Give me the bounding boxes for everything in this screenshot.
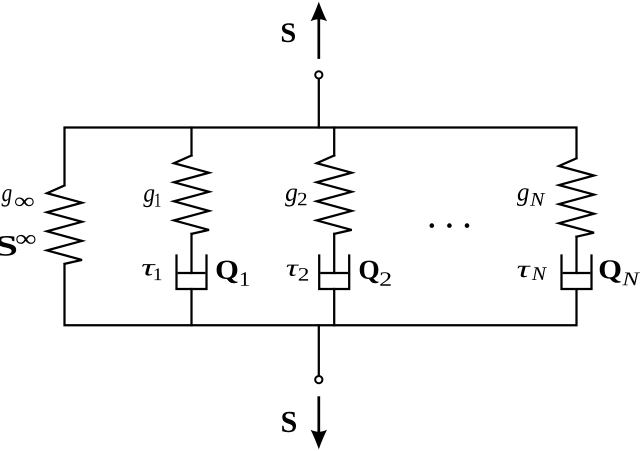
dashpot Q2 cup xyxy=(319,256,349,290)
label tau_1 tau xyxy=(142,264,156,275)
spring g_N xyxy=(559,158,594,236)
dots ellipsis xyxy=(430,223,470,228)
label tau_2 sub xyxy=(299,268,308,281)
wire branch2 lower lead xyxy=(190,289,192,325)
wire branch2 upper lead xyxy=(190,128,192,156)
label Q_1 Q xyxy=(217,261,238,284)
label g_2 sub xyxy=(298,193,306,206)
dashpot Q1 piston plate xyxy=(179,272,204,274)
label g_N sub xyxy=(530,193,545,206)
label Q_1 sub xyxy=(241,272,249,285)
label S top xyxy=(282,23,295,42)
dashpot QN piston plate xyxy=(564,272,589,274)
spring g_2 xyxy=(317,156,352,234)
label S^infinity inf xyxy=(16,235,35,244)
wire bottom rail with branch1/branch4 lower leads xyxy=(65,264,577,325)
node bottom terminal circle xyxy=(315,376,322,383)
label Q_2 sub xyxy=(380,272,390,286)
label Q_N sub xyxy=(622,273,640,286)
label g_N g xyxy=(517,188,529,206)
dashpot QN cup xyxy=(562,256,592,290)
label tau_N tau xyxy=(518,266,531,277)
label tau_2 tau xyxy=(287,265,299,276)
node top terminal circle xyxy=(315,71,322,78)
wire top rail with branch1/branch4 upper leads xyxy=(65,128,577,186)
dashpot Q1 cup xyxy=(177,256,207,290)
label g_infinity inf xyxy=(15,197,34,206)
wire bottom terminal stem xyxy=(318,325,320,375)
top arrowhead xyxy=(311,2,327,21)
wire top terminal stem xyxy=(318,80,320,128)
spring g_infinity xyxy=(47,186,82,264)
wire branch4 piston rod xyxy=(575,237,577,273)
label g_1 sub xyxy=(155,194,160,207)
wire branch3 lower lead xyxy=(333,289,335,325)
label tau_N sub xyxy=(532,267,547,280)
bottom arrowhead xyxy=(311,430,327,449)
wire top arrow shaft xyxy=(317,14,320,59)
label Q_2 Q xyxy=(360,261,379,284)
label g_1 g xyxy=(143,189,154,207)
spring g_1 xyxy=(174,156,209,234)
dashpot Q2 piston plate xyxy=(322,272,347,274)
label S bottom xyxy=(282,412,296,432)
wire branch2 piston rod xyxy=(190,234,192,273)
label g_infinity g xyxy=(2,189,12,207)
label tau_1 sub xyxy=(154,268,161,280)
wire branch3 upper lead xyxy=(333,128,335,156)
label Q_N Q xyxy=(600,260,621,283)
label g_2 g xyxy=(285,188,297,206)
wire branch3 piston rod xyxy=(333,234,335,273)
label S^infinity S xyxy=(0,236,16,256)
wire bottom arrow shaft xyxy=(317,396,320,437)
